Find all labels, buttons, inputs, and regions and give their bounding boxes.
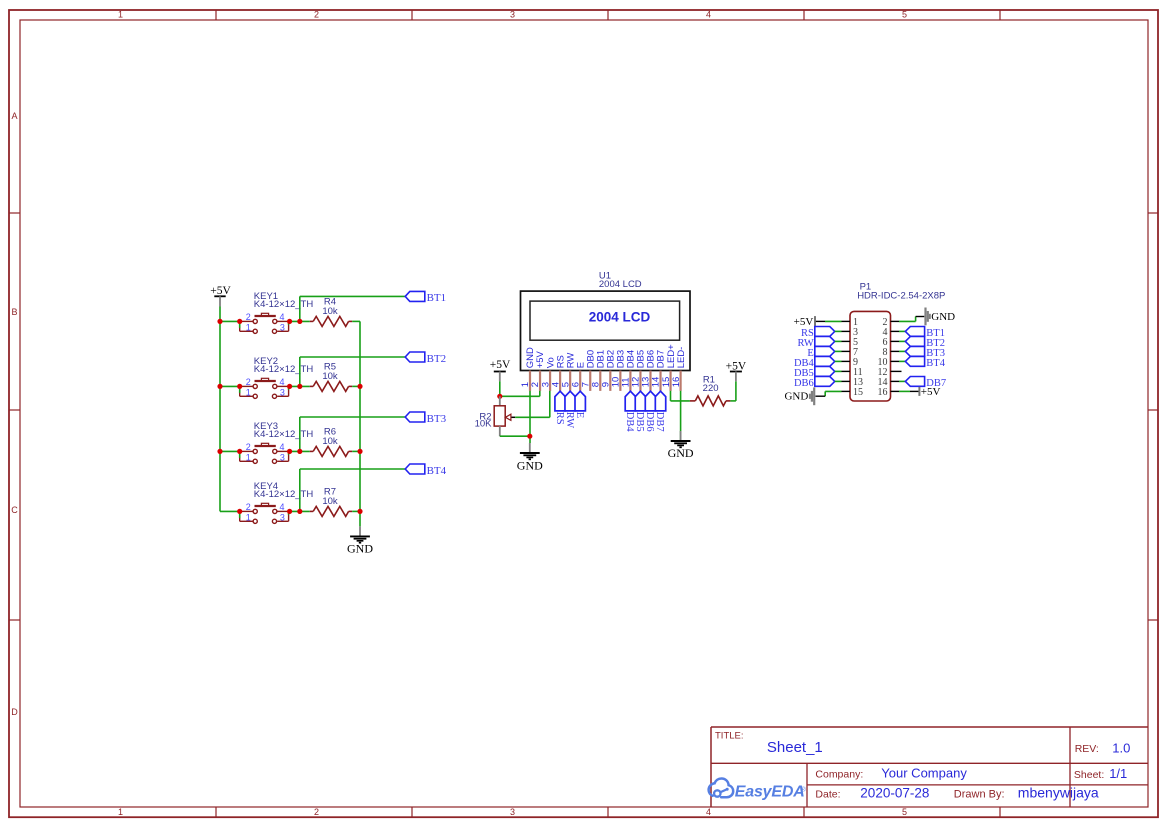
svg-text:3: 3 bbox=[510, 10, 515, 20]
svg-text:BT3: BT3 bbox=[427, 413, 447, 425]
svg-text:2020-07-28: 2020-07-28 bbox=[860, 786, 929, 801]
svg-text:RW: RW bbox=[564, 412, 575, 428]
svg-text:10k: 10k bbox=[322, 436, 338, 447]
svg-text:5: 5 bbox=[902, 10, 907, 20]
wire +5V vertical rail bbox=[219, 307, 221, 512]
svg-text:1: 1 bbox=[118, 10, 123, 20]
svg-text:4: 4 bbox=[280, 312, 285, 322]
svg-text:Date:: Date: bbox=[815, 789, 840, 801]
svg-text:mbenywijaya: mbenywijaya bbox=[1018, 785, 1099, 801]
svg-text:10k: 10k bbox=[322, 306, 338, 317]
svg-text:DB6: DB6 bbox=[794, 378, 814, 389]
wire R4 to GND rail bbox=[352, 320, 360, 322]
net flag DB7 on U1 pin 14 bbox=[654, 391, 666, 431]
svg-text:Company:: Company: bbox=[815, 768, 863, 780]
junction dots on rails bbox=[217, 319, 362, 514]
svg-text:5: 5 bbox=[902, 807, 907, 817]
svg-text:EasyEDA: EasyEDA bbox=[735, 783, 805, 800]
svg-text:3: 3 bbox=[280, 512, 285, 522]
svg-text:BT4: BT4 bbox=[427, 465, 447, 477]
wire RW to P1 bbox=[835, 340, 842, 342]
svg-text:4: 4 bbox=[706, 10, 711, 20]
svg-text:10k: 10k bbox=[322, 371, 338, 382]
wire BT3 to P1 pin 8 bbox=[899, 350, 905, 352]
net flag RS on U1 pin 4 bbox=[554, 391, 566, 425]
svg-text:220: 220 bbox=[703, 383, 719, 394]
svg-text:2: 2 bbox=[246, 502, 251, 512]
svg-text:GND: GND bbox=[931, 311, 955, 323]
svg-text:DB5: DB5 bbox=[634, 412, 645, 432]
svg-text:10K: 10K bbox=[475, 419, 493, 430]
svg-text:BT4: BT4 bbox=[926, 358, 945, 369]
wire riser to BT1 flag bbox=[300, 296, 405, 321]
wire R5 to GND rail bbox=[352, 385, 360, 387]
svg-text:GND: GND bbox=[784, 391, 808, 403]
junction dots KEY3 row bbox=[237, 449, 302, 454]
net flag RW at P1 pin 5 bbox=[797, 337, 834, 350]
svg-text:K4-12×12_TH: K4-12×12_TH bbox=[254, 299, 314, 310]
svg-text:1.0: 1.0 bbox=[1112, 740, 1130, 755]
net flag BT4 bbox=[405, 464, 446, 477]
potentiometer R2 10K bbox=[475, 396, 516, 436]
svg-text:1: 1 bbox=[246, 452, 251, 462]
svg-text:TITLE:: TITLE: bbox=[715, 731, 744, 742]
svg-text:16: 16 bbox=[671, 377, 682, 388]
svg-text:Drawn By:: Drawn By: bbox=[954, 789, 1005, 801]
svg-text:1: 1 bbox=[118, 807, 123, 817]
svg-text:2: 2 bbox=[314, 807, 319, 817]
wire U1 pin16 LED- to GND bbox=[680, 391, 682, 440]
svg-text:3: 3 bbox=[280, 387, 285, 397]
svg-text:+5V: +5V bbox=[794, 316, 814, 328]
svg-text:D: D bbox=[11, 707, 18, 717]
wire R2 wiper to U1 pin3 Vo bbox=[515, 391, 550, 418]
net flag E at P1 pin 7 bbox=[807, 347, 834, 360]
svg-text:GND: GND bbox=[517, 458, 543, 472]
net flag BT2 bbox=[405, 352, 446, 365]
wire U1 pin1 to GND bbox=[500, 391, 530, 443]
resistor R6 10k bbox=[310, 426, 352, 456]
EasyEDA logo bbox=[709, 779, 806, 801]
svg-text:GND: GND bbox=[347, 542, 373, 556]
net flag DB4 on U1 pin 11 bbox=[624, 391, 636, 432]
net flag RW on U1 pin 5 bbox=[564, 391, 576, 428]
wire DB4 to P1 bbox=[835, 360, 842, 362]
title block bbox=[711, 727, 1148, 807]
net flag DB5 on U1 pin 12 bbox=[634, 391, 646, 431]
wire RS to P1 bbox=[835, 330, 842, 332]
svg-text:2: 2 bbox=[246, 377, 251, 387]
ground GND at P1 pin2 bbox=[926, 308, 956, 326]
power +5V at P1 pin1 bbox=[794, 316, 825, 328]
key switch KEY4 bbox=[220, 481, 313, 523]
svg-text:4: 4 bbox=[280, 502, 285, 512]
key switch KEY2 bbox=[220, 356, 313, 398]
svg-text:16: 16 bbox=[878, 387, 888, 398]
svg-text:3: 3 bbox=[280, 322, 285, 332]
wire riser to BT2 flag bbox=[300, 357, 405, 386]
net flag BT3 at P1 pin 8 bbox=[905, 347, 945, 360]
net flag E on U1 pin 6 bbox=[574, 391, 586, 418]
wire KEY3 to R6 bbox=[290, 450, 310, 452]
svg-text:2004 LCD: 2004 LCD bbox=[589, 310, 651, 325]
svg-text:2: 2 bbox=[246, 312, 251, 322]
wire riser to BT4 flag bbox=[300, 469, 405, 511]
net flag DB7 at P1 pin14 bbox=[899, 377, 946, 390]
resistor R4 10k bbox=[310, 296, 352, 326]
svg-text:E: E bbox=[574, 412, 585, 418]
wire R6 to GND rail bbox=[352, 450, 360, 452]
svg-text:2: 2 bbox=[246, 442, 251, 452]
power +5V key rail bbox=[210, 285, 231, 306]
svg-text:DB4: DB4 bbox=[624, 412, 635, 433]
svg-text:1: 1 bbox=[246, 512, 251, 522]
svg-text:K4-12×12_TH: K4-12×12_TH bbox=[254, 364, 314, 375]
net flag BT1 bbox=[405, 291, 446, 304]
svg-text:K4-12×12_TH: K4-12×12_TH bbox=[254, 489, 314, 500]
wire riser to BT3 flag bbox=[300, 417, 405, 451]
svg-text:Sheet_1: Sheet_1 bbox=[767, 739, 823, 756]
svg-text:1: 1 bbox=[246, 322, 251, 332]
resistor R1 220 bbox=[690, 375, 731, 406]
resistor R5 10k bbox=[310, 361, 352, 391]
key switch KEY1 bbox=[220, 291, 313, 333]
svg-text:1: 1 bbox=[246, 387, 251, 397]
junction dots KEY4 row bbox=[237, 509, 302, 514]
junction dots KEY1 row bbox=[237, 319, 302, 324]
net flag DB6 at P1 pin 13 bbox=[794, 377, 835, 390]
ground GND at P1 pin15 bbox=[784, 387, 814, 405]
svg-text:BT1: BT1 bbox=[427, 292, 447, 304]
junction at R2 top bbox=[497, 394, 502, 399]
svg-text:15: 15 bbox=[853, 387, 863, 398]
svg-text:HDR-IDC-2.54-2X8P: HDR-IDC-2.54-2X8P bbox=[857, 291, 945, 302]
wire P1 pin1 bbox=[825, 320, 842, 322]
wire BT2 to P1 pin 6 bbox=[899, 340, 905, 342]
svg-text:4: 4 bbox=[706, 807, 711, 817]
svg-text:B: B bbox=[11, 307, 17, 317]
resistor R7 10k bbox=[310, 486, 352, 516]
net flag RS at P1 pin 3 bbox=[801, 327, 835, 340]
power +5V at R1 bbox=[726, 360, 747, 381]
connector P1 HDR-IDC-2.54-2X8P bbox=[842, 282, 946, 402]
junction dots KEY2 row bbox=[237, 384, 302, 389]
net flag BT1 at P1 pin 4 bbox=[905, 327, 945, 340]
stub P1 pin12 no connect bbox=[899, 370, 902, 372]
svg-text:3: 3 bbox=[280, 452, 285, 462]
svg-text:REV:: REV: bbox=[1075, 743, 1099, 755]
net flag BT2 at P1 pin 6 bbox=[905, 337, 945, 350]
wire DB6 to P1 bbox=[835, 380, 842, 382]
wire KEY1 to R4 bbox=[290, 320, 310, 322]
svg-text:3: 3 bbox=[510, 807, 515, 817]
wire E to P1 bbox=[835, 350, 842, 352]
net flag BT4 at P1 pin 10 bbox=[905, 357, 945, 370]
wire DB5 to P1 bbox=[835, 370, 842, 372]
svg-text:LED-: LED- bbox=[676, 347, 687, 369]
svg-text:Your Company: Your Company bbox=[881, 766, 967, 781]
svg-text:®: ® bbox=[801, 786, 806, 794]
svg-text:K4-12×12_TH: K4-12×12_TH bbox=[254, 429, 314, 440]
ground GND below U1 pin16 bbox=[668, 431, 694, 460]
wire +5V to pin2 net bbox=[500, 381, 540, 396]
svg-text:DB7: DB7 bbox=[654, 412, 665, 432]
svg-text:+5V: +5V bbox=[726, 360, 747, 372]
net flag DB6 on U1 pin 13 bbox=[644, 391, 656, 431]
wire P1 pin15 to GND bbox=[816, 391, 842, 396]
svg-text:2004 LCD: 2004 LCD bbox=[599, 279, 642, 290]
LCD module U1 2004 LCD bbox=[520, 271, 690, 391]
svg-text:Sheet:: Sheet: bbox=[1074, 769, 1104, 781]
ground GND below key resistors bbox=[347, 526, 373, 555]
svg-text:BT2: BT2 bbox=[427, 353, 447, 365]
power +5V at R2 bbox=[490, 359, 511, 381]
wire R7 to GND rail bbox=[352, 510, 360, 512]
net flag BT3 bbox=[405, 412, 446, 425]
svg-text:A: A bbox=[11, 111, 17, 121]
wire BT4 to P1 pin 10 bbox=[899, 360, 905, 362]
svg-text:+5V: +5V bbox=[490, 359, 511, 371]
svg-text:C: C bbox=[11, 505, 18, 515]
svg-text:RS: RS bbox=[554, 412, 565, 425]
wire GND rail right of resistors bbox=[359, 321, 361, 526]
wire P1 pin2 to GND bbox=[899, 317, 924, 322]
svg-text:2: 2 bbox=[314, 10, 319, 20]
wire KEY2 to R5 bbox=[290, 385, 310, 387]
key switch KEY3 bbox=[220, 421, 313, 463]
wire R1 to +5V bbox=[730, 381, 736, 401]
ground GND below R2 bbox=[517, 443, 543, 472]
wire U1 pin15 LED+ to R1 bbox=[671, 391, 690, 401]
svg-text:4: 4 bbox=[280, 442, 285, 452]
svg-text:1/1: 1/1 bbox=[1109, 766, 1127, 781]
svg-text:DB6: DB6 bbox=[644, 412, 655, 432]
net flag DB4 at P1 pin 9 bbox=[794, 357, 835, 370]
net flag DB5 at P1 pin 11 bbox=[794, 367, 835, 380]
svg-text:GND: GND bbox=[668, 446, 694, 460]
wire KEY4 to R7 bbox=[290, 510, 310, 512]
junction at R2 bottom bbox=[527, 434, 532, 439]
svg-text:+5V: +5V bbox=[921, 386, 941, 398]
svg-text:4: 4 bbox=[280, 377, 285, 387]
power +5V at P1 pin16 bbox=[899, 386, 941, 398]
svg-text:10k: 10k bbox=[322, 496, 338, 507]
wire BT1 to P1 pin 4 bbox=[899, 330, 905, 332]
